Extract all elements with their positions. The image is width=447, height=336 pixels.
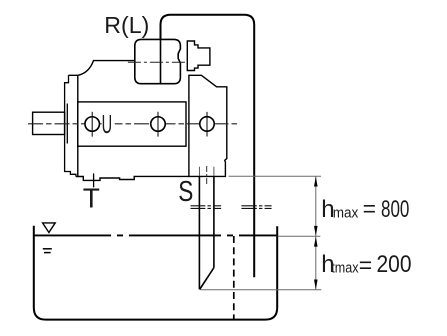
dimension line h_tmax [315, 236, 317, 290]
svg-text:R(L): R(L) [104, 12, 149, 38]
label h_tmax = 200 [321, 251, 411, 278]
dashed line inside tank [233, 236, 235, 319]
svg-text:=: = [363, 195, 376, 221]
svg-text:800: 800 [381, 196, 409, 223]
wire R(L) drain pipe from port up over and down into tank [161, 15, 255, 278]
label h_max = 800 [321, 195, 409, 223]
T port tick [93, 173, 95, 187]
extension line pipe end [201, 289, 322, 291]
svg-text:=: = [359, 252, 372, 278]
port circle 3 [200, 117, 215, 131]
tank top plate marks at S pipe [191, 206, 222, 209]
arrow down at pipe end line [314, 280, 318, 290]
suction pipe bevel cut [200, 268, 214, 290]
pump shaft [33, 112, 65, 134]
pump mounting flange [65, 75, 78, 176]
pump housing outline [76, 61, 227, 181]
port circle 1 [85, 117, 100, 132]
boss centerline [128, 61, 187, 63]
svg-text:tmax: tmax [331, 261, 359, 277]
suction pipe S left wall [198, 176, 200, 289]
pump front band plate [78, 102, 186, 146]
fluid level line [33, 234, 276, 236]
port circle 2 [151, 117, 166, 132]
shaft centerline [28, 123, 238, 125]
arrow down to fluid line [314, 226, 318, 236]
svg-text:max: max [333, 205, 359, 221]
svg-text:T: T [83, 183, 100, 214]
label U [102, 114, 115, 134]
fluid level symbol triangle [43, 223, 56, 233]
dimension line h_max [315, 176, 317, 236]
port boss R(L) rounded block [135, 39, 181, 83]
suction pipe S right wall [213, 176, 215, 267]
svg-text:S: S [178, 174, 193, 207]
tank top plate marks at R(L) pipe [241, 206, 271, 209]
S port bore lines inside housing [198, 167, 200, 176]
arrow up to fluid line [314, 237, 318, 247]
svg-text:U: U [102, 111, 113, 139]
S port centerline [206, 166, 208, 184]
fluid level equals mark [43, 248, 52, 250]
extension line fluid level [278, 235, 321, 237]
connector plug on boss [187, 41, 210, 71]
svg-text:200: 200 [377, 251, 412, 278]
shaft seal ring on flange [66, 104, 68, 144]
pipe line inside boss [160, 40, 162, 84]
tank outline [34, 226, 277, 320]
extension line top (pump base) [229, 175, 321, 177]
arrow up at pump base line [314, 177, 318, 187]
